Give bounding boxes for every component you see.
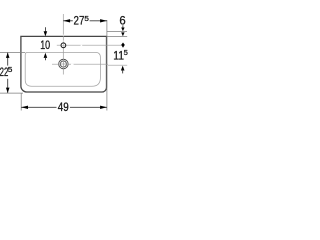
svg-text:5: 5 bbox=[124, 48, 128, 57]
dim 27.5 line bbox=[63, 20, 73, 22]
wire: 22.5-dim top extension line bbox=[0, 52, 25, 54]
drain inner circle bbox=[60, 61, 66, 67]
node: tap hole horizontal centerline bbox=[57, 44, 125, 46]
arrow down of 22.5 bbox=[6, 88, 10, 93]
wire: upper reference line L1 (6 dim) bbox=[107, 30, 127, 32]
bowl inner outline bbox=[25, 52, 100, 86]
dim 49 line bbox=[21, 106, 56, 108]
svg-text:49: 49 bbox=[58, 100, 69, 114]
node: drain horizontal centerline bbox=[52, 63, 108, 65]
basin outer outline bbox=[21, 36, 107, 92]
arrow right of 49 bbox=[100, 106, 107, 109]
wire: top edge extension to right bbox=[107, 35, 127, 37]
node: vertical centerline through tap hole and drain bbox=[62, 14, 64, 75]
dim 6 lower down-arrow bbox=[121, 32, 124, 36]
svg-text:5: 5 bbox=[84, 14, 89, 23]
dim 10 bottom arrow bbox=[44, 53, 48, 58]
node: drain crosshair (re-draw over white circle fill) bbox=[58, 63, 69, 65]
drain outer circle bbox=[59, 59, 69, 69]
arrow right of 27.5 bbox=[100, 19, 107, 22]
diamond marker on tap centerline bbox=[121, 43, 125, 48]
arrow left of 27.5 bbox=[63, 19, 70, 22]
wire: right vertical extension line bbox=[106, 20, 108, 111]
svg-text:27: 27 bbox=[74, 14, 85, 28]
arrow up of 22.5 bbox=[6, 53, 10, 58]
svg-text:10: 10 bbox=[40, 38, 50, 52]
dim 6 upper down-arrow bbox=[122, 25, 124, 28]
wire: 22.5-dim bottom extension line bbox=[0, 92, 23, 94]
wire: left bottom extension line (49 dim) bbox=[20, 94, 22, 111]
dim 11.5 up arrow bbox=[121, 66, 125, 71]
arrow left of 49 bbox=[21, 106, 28, 109]
dim 10 top arrow bbox=[44, 27, 46, 32]
tap hole bbox=[61, 43, 66, 48]
svg-text:5: 5 bbox=[8, 65, 13, 74]
dim 22.5 line bbox=[7, 53, 9, 66]
